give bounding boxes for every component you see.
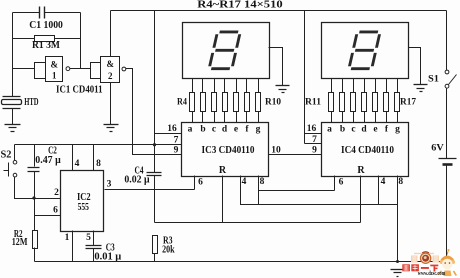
svg-text:4: 4 — [75, 159, 80, 169]
ground HTD — [5, 125, 21, 132]
svg-text:d: d — [222, 125, 228, 135]
resistor R2 — [33, 231, 38, 262]
wire IC3 pin10 to IC4 pin9 — [269, 154, 322, 156]
svg-text:9: 9 — [174, 146, 179, 156]
IC3 pin 6 wire — [194, 176, 196, 190]
IC4 pin 4 wire — [378, 176, 380, 205]
display DS1 pin leads — [193, 79, 259, 93]
wire DS2 common to ground — [409, 48, 421, 85]
wire Vdd drop to IC3 — [154, 11, 156, 173]
svg-text:10: 10 — [271, 145, 281, 155]
svg-text:2: 2 — [54, 188, 59, 198]
svg-text:9: 9 — [312, 145, 317, 155]
svg-text:8: 8 — [96, 159, 101, 169]
svg-text:4: 4 — [242, 177, 247, 187]
counter IC3 CD40110 — [182, 123, 269, 177]
svg-text:IC3 CD40110: IC3 CD40110 — [202, 145, 255, 156]
svg-text:R10: R10 — [265, 97, 281, 107]
svg-text:g: g — [395, 125, 400, 135]
svg-text:R17: R17 — [400, 97, 416, 107]
pin 8 — [94, 145, 102, 171]
IC3 pin 4 wire — [241, 176, 398, 205]
IC4 pin 8 wire — [397, 176, 399, 262]
svg-text:c: c — [351, 125, 355, 135]
svg-text:S1: S1 — [428, 75, 439, 85]
label C3 0.01u — [94, 243, 121, 263]
nand gate U1B — [91, 57, 126, 83]
resistor R4 (array R4-R10) — [190, 93, 261, 112]
pin 1 wire — [72, 231, 74, 262]
counter IC4 CD40110 — [322, 123, 409, 177]
svg-text:R4~R17 14×510: R4~R17 14×510 — [197, 0, 283, 10]
capacitor C2 — [28, 145, 40, 231]
timer IC2 555 — [61, 171, 104, 232]
IC3 pin 8 wire — [258, 176, 260, 205]
ground DS1 — [276, 86, 290, 93]
wire pin2 — [35, 198, 61, 200]
svg-text:C1 1000: C1 1000 — [29, 20, 63, 31]
svg-text:R: R — [357, 165, 365, 176]
capacitor C1 — [13, 7, 81, 19]
svg-text:a: a — [188, 125, 193, 135]
svg-text:www.dzsc.com: www.dzsc.com — [418, 271, 446, 277]
wire top supply rail — [111, 10, 447, 12]
wire DS1 common to ground — [269, 48, 283, 86]
capacitor C3 — [86, 246, 102, 262]
svg-text:16: 16 — [307, 124, 317, 134]
watermark mascot and text — [402, 249, 456, 277]
label R2 12M — [12, 229, 28, 248]
svg-text:R1 3M: R1 3M — [32, 40, 61, 51]
svg-text:3: 3 — [107, 179, 112, 189]
svg-text:12M: 12M — [12, 237, 28, 248]
resistor lower leads to IC3 — [193, 112, 259, 123]
svg-text:2: 2 — [108, 71, 113, 81]
svg-text:7: 7 — [312, 135, 317, 145]
svg-text:4: 4 — [381, 177, 386, 187]
svg-text:HTD: HTD — [24, 97, 38, 108]
gate input wire — [13, 68, 35, 70]
svg-text:1: 1 — [52, 71, 57, 81]
svg-text:IC1 CD4011: IC1 CD4011 — [56, 85, 103, 96]
piezo sounder HTD — [2, 97, 22, 125]
switch S2 — [4, 145, 35, 199]
svg-text:IC4 CD40110: IC4 CD40110 — [341, 145, 394, 156]
7-seg display DS1 — [183, 23, 270, 79]
resistor R1 — [13, 36, 81, 42]
wire Vcc distribution row — [15, 144, 182, 146]
svg-text:g: g — [256, 125, 261, 135]
svg-text:0.47 μ: 0.47 μ — [35, 155, 61, 166]
ground DS2 — [414, 85, 428, 92]
wire gate2 output to IC3 pin 9 — [126, 69, 182, 155]
nand gate U1A — [35, 57, 70, 82]
battery 6V — [439, 159, 457, 262]
node junction S2/C2/pin2 — [32, 196, 35, 199]
ground at bus — [391, 270, 405, 277]
resistor R11 (array R11-R17) — [329, 93, 400, 112]
svg-text:6: 6 — [198, 178, 203, 188]
svg-text:e: e — [234, 125, 238, 135]
ground gate2 — [104, 125, 119, 132]
svg-text:R4: R4 — [177, 97, 187, 107]
svg-text:R: R — [219, 165, 227, 176]
label C4 0.02u — [124, 166, 150, 186]
svg-text:6V: 6V — [431, 144, 444, 154]
IC3 pin 16 wire — [155, 133, 182, 135]
svg-text:&: & — [50, 60, 58, 70]
svg-text:&: & — [107, 59, 115, 69]
wire gate2 ground lead — [110, 83, 112, 125]
wire IC3 pin8 to IC4 pin6 — [259, 176, 335, 191]
svg-text:f: f — [385, 125, 389, 135]
wire gate2 supply — [110, 11, 112, 57]
wire gate1 to gate2 — [70, 68, 91, 70]
wire left node vertical — [12, 13, 14, 97]
svg-text:a: a — [327, 125, 332, 135]
IC4 pin 16 wire — [305, 133, 322, 135]
svg-text:0.01 μ: 0.01 μ — [94, 251, 121, 262]
svg-text:e: e — [373, 125, 377, 135]
svg-text:b: b — [200, 125, 205, 135]
node junction pin8/ground bus — [396, 260, 399, 263]
7-seg display DS2 — [322, 23, 409, 79]
wire reset bus — [155, 222, 361, 224]
pin 5 wire — [93, 231, 95, 246]
svg-text:R11: R11 — [305, 97, 321, 107]
wire Vdd drop to IC4 — [304, 11, 306, 144]
svg-text:8: 8 — [398, 177, 403, 187]
svg-text:f: f — [245, 125, 249, 135]
svg-text:d: d — [361, 125, 367, 135]
svg-text:1: 1 — [65, 233, 70, 243]
svg-text:c: c — [212, 125, 216, 135]
svg-text:8: 8 — [260, 177, 265, 187]
svg-text:7: 7 — [174, 135, 179, 145]
svg-text:555: 555 — [78, 202, 89, 213]
pin 4 — [73, 145, 80, 171]
svg-text:6: 6 — [53, 206, 58, 216]
wire ground bus — [35, 261, 449, 263]
switch S1 — [445, 11, 456, 159]
resistor lower leads to IC4 — [332, 112, 398, 123]
resistor R3 — [153, 236, 158, 262]
label R3 20k — [162, 235, 175, 255]
wire right node vertical — [80, 13, 82, 69]
IC3 R pin wire — [222, 176, 224, 223]
IC4 R pin wire — [360, 176, 362, 223]
display DS2 pin leads — [332, 79, 398, 93]
node junction V+/pin7 — [153, 143, 156, 146]
svg-text:b: b — [340, 125, 345, 135]
IC4 pin 7 wire — [305, 143, 322, 145]
svg-text:16: 16 — [167, 124, 177, 134]
svg-text:0.02 μ: 0.02 μ — [124, 175, 150, 186]
svg-text:S2: S2 — [1, 150, 12, 161]
wire pin6 — [35, 215, 61, 217]
pin 3 wire — [105, 189, 195, 191]
capacitor C4 — [147, 173, 162, 223]
svg-text:5: 5 — [86, 233, 91, 243]
svg-text:6: 6 — [339, 178, 344, 188]
svg-text:20k: 20k — [162, 245, 175, 256]
